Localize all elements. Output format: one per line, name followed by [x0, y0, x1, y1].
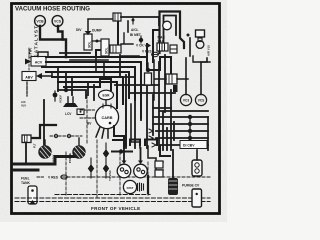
liquid check valve LCV — [68, 97, 73, 103]
main feed line left — [31, 125, 56, 138]
EGR valve — [99, 90, 114, 100]
dashed vapor lines — [67, 176, 210, 178]
vacuum harness ladder (right) — [160, 110, 208, 112]
wires bottom right — [148, 146, 163, 176]
canister Q (hatched) — [68, 138, 86, 163]
dual diaphragm unit — [192, 160, 202, 176]
purge canister (dark, bottom right) — [168, 178, 178, 195]
check valve VCKV — [53, 93, 58, 98]
carburetor CARB — [95, 105, 118, 128]
hatched fitting on top line — [113, 13, 121, 21]
scan grain overlay — [0, 0, 227, 222]
wire from VCB down — [40, 26, 66, 57]
wires to switches — [185, 58, 187, 94]
carb hose stubs — [96, 127, 100, 137]
vacuum switch VC3 — [180, 94, 191, 105]
distributor DIST — [123, 180, 136, 193]
fitting GD — [77, 109, 84, 115]
bottom manifold bars — [130, 140, 140, 146]
hatched fitting mid — [110, 45, 121, 53]
vapor dash line — [86, 95, 88, 145]
canister feed hose — [43, 100, 45, 146]
border frame — [12, 4, 220, 214]
catalyst protect valve CAT VLV — [193, 56, 210, 62]
hose junction block — [162, 112, 164, 150]
air cleaner stub below ABV — [26, 82, 28, 96]
label DI CBV — [180, 141, 207, 149]
air inlet nested ducts (top right) — [160, 12, 185, 54]
vapor tee fittings — [50, 135, 82, 137]
air check valve ACV — [25, 52, 48, 66]
vacuum switch VCB — [35, 16, 46, 27]
air bypass valve ABV — [22, 72, 52, 81]
vacuum motor circles — [117, 164, 131, 178]
manifold line across top — [121, 16, 159, 18]
MAN VAC tap — [163, 21, 172, 30]
canister P (hatched) — [39, 140, 56, 162]
vertical valve w/ sensor (center) — [146, 68, 150, 72]
vacuum switch VCS — [52, 16, 63, 27]
riser wires to top cluster — [117, 20, 119, 50]
throttle cluster fittings (right mid) — [166, 74, 177, 84]
hose bundle horizontals (center) — [46, 50, 118, 57]
check valve diamonds — [88, 164, 94, 173]
wire from VCS down — [58, 26, 63, 40]
ribbed hose fitting — [157, 43, 168, 51]
dash-dot leader to ACV — [28, 48, 30, 70]
vacuum switch VCS2 — [195, 94, 206, 105]
hose comb verticals (center right) — [120, 55, 135, 77]
staircase supply line (bottom left) — [13, 157, 75, 165]
